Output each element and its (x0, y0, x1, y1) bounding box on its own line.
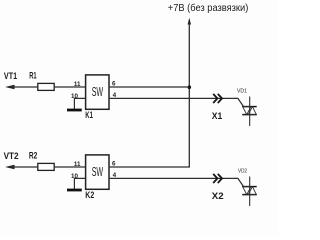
wire R2 to K2 pin11 (54, 166, 85, 168)
svg-text:11: 11 (74, 81, 81, 88)
svg-text:VD1: VD1 (237, 89, 247, 95)
wire VT1 arrow out (5, 85, 38, 89)
svg-text:X2: X2 (212, 191, 224, 202)
svg-text:SW: SW (92, 164, 104, 179)
wire VT2 arrow out (5, 165, 38, 169)
svg-text:K1: K1 (85, 110, 93, 120)
wire K2 pin10 to ground (74, 178, 85, 189)
ground K2 (67, 189, 82, 192)
diode VD1 (bidirectional suppressor) (242, 97, 256, 127)
op-amp U2 box K2 SW (86, 155, 109, 189)
wire K2 pin6 to rail corner (109, 166, 190, 168)
resistor R1 (38, 83, 54, 90)
wire +7V vertical rail (188, 22, 190, 167)
power arrow (+7V) (188, 18, 191, 25)
svg-text:K2: K2 (85, 190, 94, 200)
svg-text:VT1: VT1 (4, 70, 17, 81)
wire K1 pin4 to X1 and VD1 (109, 98, 244, 106)
svg-text:R1: R1 (29, 71, 36, 81)
svg-text:+7В (без развязки): +7В (без развязки) (168, 2, 249, 14)
ground K1 (67, 109, 82, 112)
diode VD2 (bidirectional suppressor) (242, 177, 256, 207)
wire K2 pin4 to X2 and VD2 (109, 178, 244, 186)
svg-text:11: 11 (74, 161, 81, 168)
connector X1 chevrons (213, 94, 222, 103)
op-amp U1 box K1 SW (86, 75, 109, 109)
wire K1 pin10 to ground (74, 98, 85, 109)
wire K1 pin6 to rail (109, 86, 189, 88)
connector X2 chevrons (213, 174, 222, 183)
svg-text:VD2: VD2 (238, 169, 247, 175)
svg-text:SW: SW (92, 84, 104, 99)
svg-text:VT2: VT2 (4, 150, 19, 161)
node junction K1 pin6 to rail (188, 85, 192, 89)
resistor R2 (38, 163, 54, 170)
svg-text:R2: R2 (29, 151, 37, 161)
wire R1 to K1 pin11 (54, 86, 85, 88)
svg-text:X1: X1 (212, 111, 223, 122)
